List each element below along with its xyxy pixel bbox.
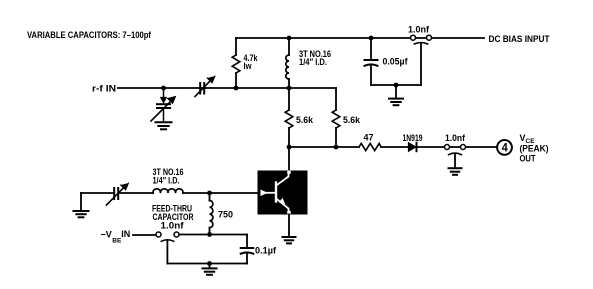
node 750 bottom (207, 232, 212, 237)
label -VBE IN (101, 229, 131, 245)
node L1 top (287, 36, 292, 41)
variable capacitor C2 series (195, 76, 215, 97)
capacitor C5 0.1uf (241, 235, 254, 264)
wire base row (81, 192, 114, 194)
feed-thru capacitor FT3 1.0nf (156, 232, 179, 241)
wire r-f IN horizontal (118, 87, 336, 89)
label DC BIAS INPUT (489, 34, 550, 45)
svg-text:DC BIAS INPUT: DC BIAS INPUT (489, 34, 550, 45)
node R3 bottom (334, 145, 339, 150)
wire collector row (289, 146, 359, 148)
svg-text:1.0nf: 1.0nf (408, 25, 430, 35)
svg-text:1N919: 1N919 (403, 133, 423, 143)
svg-text:1/4″ I.D.: 1/4″ I.D. (299, 57, 327, 67)
ground bottom (203, 264, 217, 275)
feed-thru capacitor FT2 1.0nf (445, 145, 466, 155)
labels FEED-THRU CAPACITOR 1.0nf (152, 204, 194, 231)
resistor R2 5.6k (285, 88, 293, 147)
diode D1 1N919 (409, 143, 417, 151)
ground emitter (283, 237, 296, 243)
node r-f junction (161, 86, 166, 91)
node L1 bottom (287, 86, 292, 91)
wire emitter drop (288, 215, 290, 237)
label r-f IN (92, 84, 116, 94)
svg-text:1/4″ I.D.: 1/4″ I.D. (153, 176, 180, 186)
wire FT3 drop (166, 241, 168, 264)
svg-text:0.1µf: 0.1µf (255, 246, 277, 256)
inductor L1 3T (286, 38, 289, 88)
svg-text:750: 750 (218, 210, 233, 221)
svg-text:Iw: Iw (244, 61, 253, 71)
ground base left (74, 193, 89, 217)
svg-text:47: 47 (364, 133, 374, 143)
resistor R5 750 coil-style (210, 193, 213, 235)
svg-text:OUT: OUT (520, 154, 536, 164)
inductor L2 3T base (153, 189, 183, 193)
svg-text:1.0nf: 1.0nf (445, 133, 466, 143)
ground under FT2 (449, 154, 462, 175)
label VCE PEAK OUT (520, 133, 549, 164)
svg-text:5.6k: 5.6k (343, 115, 361, 125)
node 750 top (207, 191, 212, 196)
resistor R3 5.6k (332, 88, 340, 147)
resistor R1 4.7k (232, 38, 240, 88)
transistor Q1 (258, 170, 308, 214)
node bottom ground (207, 261, 212, 266)
svg-text:IN: IN (121, 229, 130, 239)
variable capacitor C4 series base (107, 183, 129, 205)
node collector junction (287, 145, 292, 150)
node ground junction (394, 83, 399, 88)
svg-text:(PEAK): (PEAK) (520, 144, 549, 154)
title text (27, 30, 152, 41)
wire collector drop (288, 147, 290, 171)
svg-text:VARIABLE CAPACITORS: 7–100pf: VARIABLE CAPACITORS: 7–100pf (27, 30, 152, 41)
node A 4.7k bottom (234, 86, 239, 91)
resistor R4 47 (359, 143, 381, 150)
wire bottom row (167, 263, 247, 265)
wire C3 bottom (371, 84, 421, 86)
wire -VBE row (133, 234, 156, 236)
ground under C3 (389, 85, 403, 105)
node C3 top (369, 36, 374, 41)
wire feedthru drop (420, 44, 422, 86)
svg-text:1.0nf: 1.0nf (161, 220, 185, 230)
svg-text:−V: −V (101, 230, 112, 240)
capacitor C3 0.05uf (365, 38, 378, 85)
wire top rail (236, 37, 484, 39)
terminal 4 circle (497, 140, 512, 155)
feed-thru capacitor FT1 1.0nf (411, 35, 432, 44)
svg-text:0.05µf: 0.05µf (383, 57, 409, 67)
svg-text:5.6k: 5.6k (296, 115, 314, 125)
variable capacitor C1 shunt (151, 88, 176, 122)
white internals (263, 174, 289, 212)
svg-text:4: 4 (502, 143, 509, 155)
svg-text:r-f IN: r-f IN (92, 84, 116, 94)
ground under C1 (156, 122, 172, 129)
